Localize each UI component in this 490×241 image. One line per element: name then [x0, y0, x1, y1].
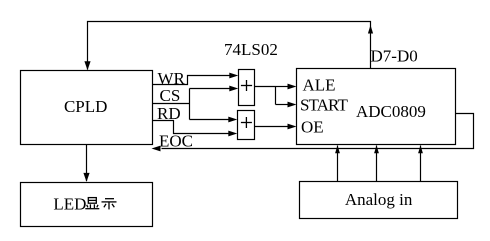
pin CS label — [160, 86, 181, 105]
wire U1A output to ALE and START — [255, 84, 297, 108]
svg-text:74LS02: 74LS02 — [224, 40, 278, 59]
pin RD label — [157, 104, 181, 123]
label 74LS02 — [224, 40, 278, 59]
svg-text:CS: CS — [160, 86, 181, 105]
NOR gate U1A — [239, 70, 255, 106]
LED display block — [21, 183, 153, 227]
wire CS to gates U1A and U1B — [153, 86, 239, 123]
wire RD to gate U1B input 2 — [153, 121, 238, 137]
wire analog channel 2 — [374, 145, 379, 181]
wire CPLD to LED display — [83, 145, 89, 182]
svg-text:START: START — [300, 96, 348, 115]
svg-text:OE: OE — [301, 118, 324, 137]
wire EOC from ADC0809 to CPLD — [152, 114, 474, 152]
svg-text:ADC0809: ADC0809 — [356, 102, 426, 121]
CPLD block U2 — [21, 71, 153, 145]
wire D7-D0 bus (ADC0809 top to CPLD top) — [84, 22, 373, 71]
svg-text:CPLD: CPLD — [64, 97, 107, 116]
svg-text:ALE: ALE — [303, 76, 336, 95]
node D7-D0 label — [371, 47, 418, 66]
NOR gate U1B — [238, 111, 255, 140]
wire analog channel 3 — [418, 145, 423, 181]
svg-text:D7-D0: D7-D0 — [371, 47, 418, 66]
svg-text:LED: LED — [53, 195, 86, 214]
glyph 显 (display char 1) — [85, 198, 99, 209]
pin WR label — [158, 69, 186, 88]
svg-text:Analog in: Analog in — [345, 190, 413, 209]
wire analog channel 1 — [335, 145, 340, 181]
pin EOC label — [159, 132, 193, 151]
glyph 示 (display char 2) — [102, 199, 117, 210]
Analog in block — [300, 182, 458, 219]
ADC0809 block U3 — [297, 69, 456, 145]
wire WR to gate U1A input 1 — [153, 73, 239, 85]
wire U1B output to OE — [255, 124, 297, 130]
svg-text:EOC: EOC — [159, 132, 193, 151]
